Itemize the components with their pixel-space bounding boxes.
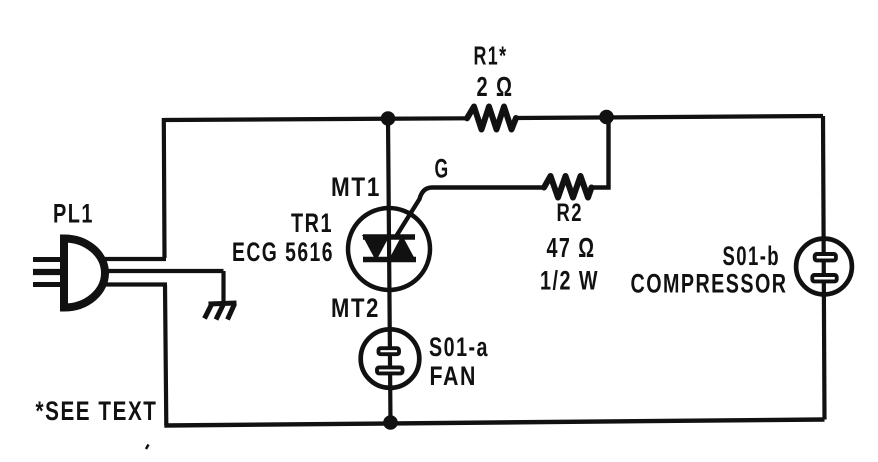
- svg-text:47 Ω: 47 Ω: [547, 232, 596, 263]
- wire plug top: [99, 257, 166, 261]
- plug prong 2: [33, 269, 64, 275]
- wire right rail: [823, 116, 825, 420]
- svg-text:R2: R2: [557, 199, 584, 227]
- svg-text:MT2: MT2: [331, 293, 380, 323]
- wire plug bottom: [100, 282, 167, 286]
- socket SO1-a circle: [361, 329, 420, 388]
- wire left rail upper: [162, 118, 167, 258]
- wire plug middle (to ground): [103, 269, 224, 273]
- resistor R2: [544, 176, 592, 198]
- triac TR1 circle: [348, 208, 430, 290]
- triac bottom bar: [363, 257, 416, 263]
- svg-text:COMPRESSOR: COMPRESSOR: [631, 269, 788, 299]
- plug prong 1: [33, 257, 64, 262]
- wire left rail lower: [165, 285, 166, 426]
- socket SO1-b bottom slot: [812, 275, 836, 281]
- socket SO1-a top slot: [379, 348, 400, 354]
- wire bottom rail: [164, 420, 824, 426]
- socket SO1-a bottom slot: [377, 367, 403, 373]
- svg-text:MT1: MT1: [331, 172, 381, 202]
- plug prong 3: [33, 282, 64, 287]
- stray tick mark: [146, 445, 149, 450]
- svg-text:1/2 W: 1/2 W: [540, 266, 599, 296]
- svg-text:TR1: TR1: [291, 208, 333, 238]
- wire top rail right segment: [516, 116, 823, 118]
- svg-text:*SEE TEXT: *SEE TEXT: [36, 396, 158, 426]
- wire ground stub: [221, 271, 225, 303]
- wire gate: [396, 188, 544, 237]
- svg-text:G: G: [435, 154, 450, 184]
- svg-text:2 Ω: 2 Ω: [477, 71, 514, 102]
- junction dot bottom: [383, 415, 398, 430]
- socket SO1-b top slot: [815, 254, 836, 260]
- plug PL1 body: [64, 239, 105, 308]
- wire top rail left segment: [164, 118, 468, 120]
- ground: [205, 303, 237, 320]
- svg-text:ECG 5616: ECG 5616: [232, 237, 334, 267]
- svg-text:PL1: PL1: [53, 199, 94, 229]
- svg-text:S01-b: S01-b: [723, 241, 781, 271]
- resistor R1: [467, 107, 516, 130]
- wire R2 to top rail: [592, 118, 609, 188]
- junction dot top-left: [381, 111, 396, 126]
- socket SO1-b circle: [796, 239, 852, 295]
- junction dot top-right: [599, 110, 614, 125]
- svg-text:FAN: FAN: [430, 361, 478, 391]
- svg-text:R1*: R1*: [474, 43, 508, 71]
- triac right triangle: [388, 235, 416, 261]
- svg-text:S01-a: S01-a: [429, 332, 489, 362]
- triac left triangle: [362, 235, 390, 261]
- wire triac branch vertical: [388, 119, 391, 423]
- triac top bar: [363, 234, 415, 240]
